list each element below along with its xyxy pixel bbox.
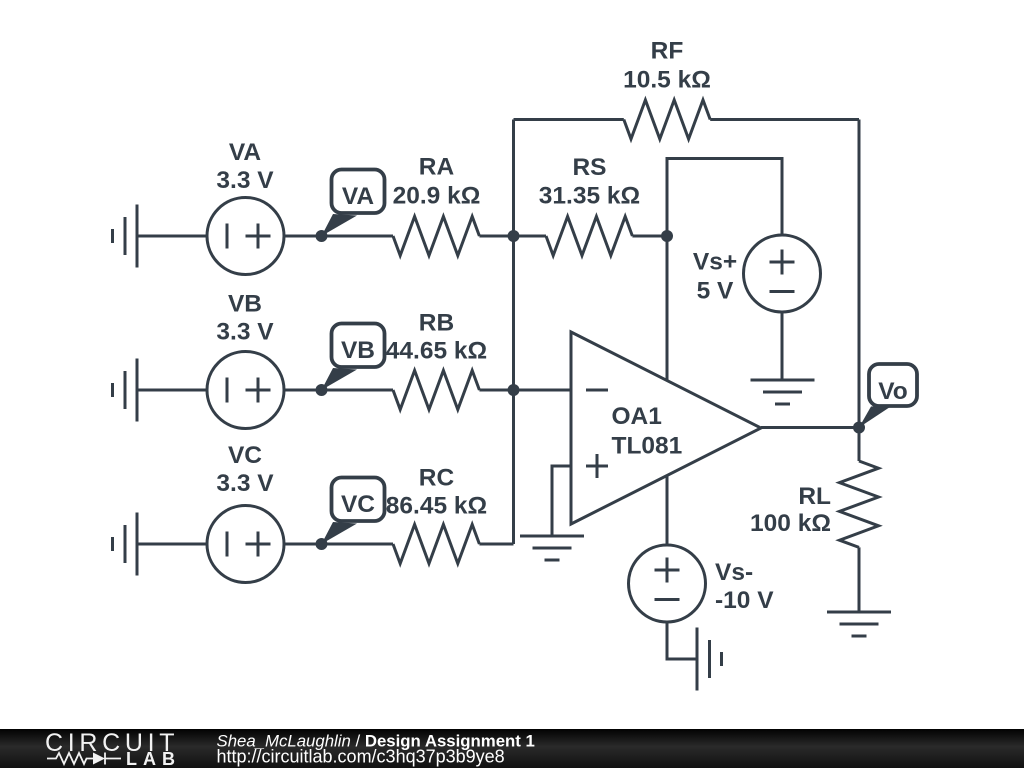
CircuitLab logo [45, 729, 181, 768]
resistor RA [393, 217, 479, 256]
svg-text:86.45 kΩ: 86.45 kΩ [386, 493, 487, 520]
svg-text:Vs+: Vs+ [693, 249, 737, 276]
node flag VB [322, 324, 385, 391]
wire RL to ground [858, 547, 861, 612]
wire non-inverting input to ground [552, 466, 571, 536]
node junction dot RS/supply [661, 230, 673, 242]
svg-text:RF: RF [651, 38, 684, 65]
node Vo junction dot [853, 422, 865, 434]
RF value label [623, 38, 711, 94]
resistor RB [393, 371, 479, 410]
ground (below Vs+) [751, 380, 815, 404]
svg-text:RS: RS [572, 154, 606, 181]
wire op-amp output [761, 426, 859, 429]
voltage source VC 3.3 V [207, 506, 284, 583]
resistor RC [393, 525, 479, 564]
RL value label [750, 483, 831, 537]
svg-text:RC: RC [419, 465, 455, 492]
VB value label [216, 291, 274, 346]
wire RC to summing node [479, 543, 513, 546]
wire VC to RC [284, 543, 393, 546]
wire ground to VB [137, 389, 207, 392]
resistor RS [546, 217, 632, 256]
wire RS to supply node [632, 235, 667, 238]
wire op-amp V+ pin [666, 236, 669, 381]
resistor RL [840, 461, 879, 547]
svg-text:OA1: OA1 [612, 403, 662, 430]
node flag VC [322, 478, 385, 545]
VA value label [216, 139, 274, 194]
svg-text:RA: RA [419, 154, 455, 181]
svg-text:TL081: TL081 [612, 433, 683, 460]
svg-text:3.3 V: 3.3 V [216, 167, 274, 194]
node VB junction dot [316, 384, 328, 396]
op-amp OA1 TL081 [571, 332, 761, 524]
svg-text:VC: VC [228, 442, 262, 469]
wire VA to RA [284, 235, 393, 238]
ground (left of VC) [113, 513, 138, 576]
wire RA to summing node [479, 235, 513, 238]
svg-text:Vo: Vo [878, 378, 908, 405]
svg-text:3.3 V: 3.3 V [216, 470, 274, 497]
voltage source Vs+ 5 V [744, 235, 821, 312]
svg-text:20.9 kΩ: 20.9 kΩ [393, 183, 481, 210]
voltage source VB 3.3 V [207, 352, 284, 429]
svg-text:10.5 kΩ: 10.5 kΩ [623, 67, 711, 94]
svg-text:LAB: LAB [126, 749, 181, 768]
wire Vo to RL [858, 428, 861, 462]
svg-text:http://circuitlab.com/c3hq37p3: http://circuitlab.com/c3hq37p3b9ye8 [217, 747, 505, 767]
svg-text:100 kΩ: 100 kΩ [750, 510, 831, 537]
RC value label [386, 465, 487, 520]
node junction dot RA/RS [508, 230, 520, 242]
ground (below RL) [827, 612, 891, 636]
footer title text [217, 732, 535, 767]
node VC junction dot [316, 538, 328, 550]
RA value label [393, 154, 481, 210]
svg-text:3.3 V: 3.3 V [216, 319, 274, 346]
RS value label [539, 154, 640, 210]
wire Vs- to ground [667, 622, 697, 659]
wire RF right to output column [710, 118, 859, 121]
svg-text:-10 V: -10 V [715, 587, 774, 614]
ground (non-inverting input) [520, 536, 584, 560]
svg-text:44.65 kΩ: 44.65 kΩ [386, 338, 487, 365]
wire ground to VC [137, 543, 207, 546]
Vs+ value label [693, 249, 737, 305]
VC value label [216, 442, 274, 497]
voltage source VA 3.3 V [207, 198, 284, 275]
svg-text:31.35 kΩ: 31.35 kΩ [539, 183, 640, 210]
node flag VA [322, 170, 385, 237]
node VA junction dot [316, 230, 328, 242]
ground (left of VA) [113, 205, 138, 268]
ground (left of VB) [113, 359, 138, 422]
wire RF left [514, 118, 624, 121]
node flag Vo [859, 364, 917, 428]
svg-text:VB: VB [228, 291, 262, 318]
Vs- value label [715, 559, 774, 614]
svg-text:RL: RL [798, 483, 831, 510]
wire Vs+ to ground [781, 312, 784, 380]
svg-text:VC: VC [341, 491, 375, 518]
wire RB to summing node [479, 389, 513, 392]
wire supply node up and over [667, 159, 782, 237]
ground (right of Vs-) [697, 628, 722, 691]
wire VB to RB [284, 389, 393, 392]
wire summing node to RS [514, 235, 547, 238]
svg-text:RB: RB [419, 310, 454, 337]
svg-text:VA: VA [229, 139, 262, 166]
svg-text:5 V: 5 V [697, 278, 734, 305]
svg-text:VB: VB [341, 337, 375, 364]
svg-text:VA: VA [342, 183, 375, 210]
wire summing bus x=513.5 [512, 120, 515, 545]
voltage source Vs- -10 V [629, 545, 706, 622]
svg-text:Vs-: Vs- [715, 559, 753, 586]
node junction dot RB/op-amp [508, 384, 520, 396]
wire op-amp V- pin [666, 475, 669, 546]
wire output column down [858, 120, 861, 428]
RB value label [386, 310, 487, 365]
wire summing node to inverting input [514, 389, 572, 392]
resistor RF [624, 100, 710, 139]
wire ground to VA [137, 235, 207, 238]
